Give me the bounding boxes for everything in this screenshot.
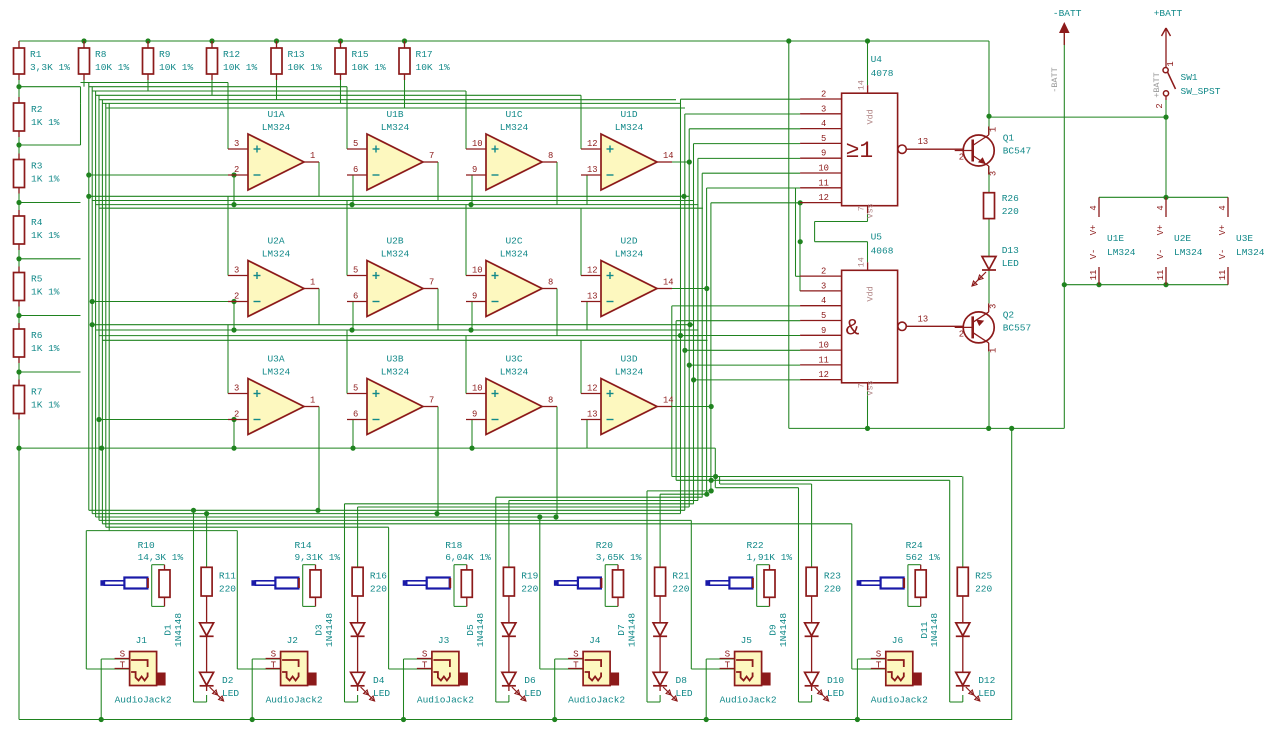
svg-text:R7: R7	[31, 387, 42, 398]
svg-text:Vdd: Vdd	[866, 286, 876, 301]
svg-text:5: 5	[821, 134, 826, 144]
svg-text:S: S	[573, 649, 579, 660]
connector J4 AudioJack2	[568, 635, 625, 706]
svg-text:Vss: Vss	[866, 380, 876, 395]
svg-text:AudioJack2: AudioJack2	[115, 695, 172, 706]
svg-text:R21: R21	[672, 570, 689, 581]
resistor R26 (220)	[984, 193, 1020, 219]
svg-text:9: 9	[472, 165, 477, 175]
svg-text:R25: R25	[975, 570, 992, 581]
svg-text:LM324: LM324	[500, 367, 529, 378]
svg-text:5: 5	[821, 311, 826, 321]
resistor R17 (10K 1%)	[399, 48, 450, 74]
svg-text:8: 8	[548, 151, 553, 161]
svg-text:Vdd: Vdd	[866, 109, 876, 124]
svg-text:R11: R11	[219, 570, 236, 581]
svg-text:J1: J1	[136, 635, 148, 646]
svg-text:Q1: Q1	[1003, 133, 1015, 144]
resistor R13 (10K 1%)	[271, 48, 322, 74]
svg-text:10K 1%: 10K 1%	[416, 62, 451, 73]
svg-text:D6: D6	[524, 675, 536, 686]
svg-text:T: T	[573, 660, 579, 671]
svg-text:U1D: U1D	[620, 109, 637, 120]
svg-text:U2A: U2A	[267, 236, 284, 247]
svg-text:5: 5	[353, 384, 358, 394]
svg-text:5: 5	[353, 266, 358, 276]
svg-text:J6: J6	[892, 635, 904, 646]
svg-text:R23: R23	[824, 570, 841, 581]
connector J2 AudioJack2	[266, 635, 323, 706]
svg-text:R10: R10	[138, 540, 155, 551]
svg-text:3: 3	[989, 171, 999, 176]
svg-text:9: 9	[472, 292, 477, 302]
wire opamp outputs	[319, 162, 711, 517]
op-amp U3D LM324	[581, 354, 674, 435]
wire bus row1-row2	[89, 196, 703, 275]
svg-text:R15: R15	[352, 49, 369, 60]
wire U5 inputs	[672, 188, 800, 380]
svg-text:1N4148: 1N4148	[324, 613, 335, 648]
svg-text:13: 13	[918, 314, 929, 324]
svg-text:V-: V-	[1156, 249, 1166, 260]
svg-text:2: 2	[959, 153, 964, 163]
jack plug symbol	[554, 578, 602, 589]
svg-text:8: 8	[548, 278, 553, 288]
svg-text:S: S	[725, 649, 731, 660]
wire top V+ rail	[19, 41, 989, 135]
resistor R6 (1K 1%)	[14, 329, 60, 357]
svg-text:U2D: U2D	[620, 236, 637, 247]
svg-text:U3D: U3D	[620, 354, 637, 365]
svg-text:R8: R8	[95, 49, 107, 60]
svg-text:2: 2	[234, 410, 239, 420]
svg-text:562 1%: 562 1%	[906, 552, 941, 563]
svg-text:13: 13	[918, 137, 929, 147]
connector J3 AudioJack2	[417, 635, 474, 706]
svg-text:AudioJack2: AudioJack2	[720, 695, 777, 706]
resistor R23 (220)	[806, 567, 841, 596]
svg-text:R2: R2	[31, 104, 43, 115]
resistor R9 (10K 1%)	[143, 48, 194, 74]
svg-text:R17: R17	[416, 49, 433, 60]
svg-text:6: 6	[353, 292, 358, 302]
diode D5 1N4148	[465, 613, 516, 648]
svg-text:10K 1%: 10K 1%	[223, 62, 258, 73]
svg-text:R19: R19	[521, 570, 538, 581]
svg-text:220: 220	[1002, 206, 1019, 217]
svg-text:10: 10	[818, 164, 829, 174]
resistor R22 (1,91K 1%)	[747, 540, 793, 597]
svg-text:D12: D12	[978, 675, 995, 686]
svg-text:12: 12	[818, 193, 829, 203]
svg-text:V+: V+	[1089, 225, 1099, 236]
LED D10	[805, 672, 845, 701]
svg-text:V-: V-	[1218, 249, 1228, 260]
power -BATT	[1050, 8, 1082, 93]
svg-text:AudioJack2: AudioJack2	[568, 695, 625, 706]
svg-text:220: 220	[219, 583, 236, 594]
connector J6 AudioJack2	[871, 635, 928, 706]
wire minus input taps	[19, 175, 715, 448]
op-amp U3B LM324	[347, 354, 438, 435]
svg-text:S: S	[271, 649, 277, 660]
op-amp U3C LM324	[466, 354, 557, 435]
jack plug symbol	[403, 578, 451, 589]
svg-text:1: 1	[310, 278, 315, 288]
svg-text:9: 9	[821, 326, 826, 336]
svg-text:U2C: U2C	[505, 236, 522, 247]
diode chain pins	[207, 596, 963, 691]
svg-text:LM324: LM324	[262, 367, 291, 378]
svg-text:1,91K 1%: 1,91K 1%	[747, 552, 793, 563]
op-amp U2A LM324	[228, 236, 319, 317]
LED D12	[956, 672, 996, 701]
svg-text:J5: J5	[741, 635, 753, 646]
svg-text:T: T	[876, 660, 882, 671]
svg-text:SW_SPST: SW_SPST	[1181, 86, 1221, 97]
svg-text:S: S	[422, 649, 428, 660]
svg-text:BC557: BC557	[1003, 322, 1032, 333]
svg-text:2: 2	[821, 90, 826, 100]
svg-text:U3B: U3B	[386, 354, 403, 365]
svg-text:LM324: LM324	[262, 122, 291, 133]
svg-text:-BATT: -BATT	[1050, 67, 1060, 93]
svg-text:1K 1%: 1K 1%	[31, 117, 60, 128]
svg-text:12: 12	[818, 370, 829, 380]
svg-text:12: 12	[587, 266, 598, 276]
svg-text:12: 12	[587, 384, 598, 394]
op-amp U1B LM324	[347, 109, 438, 190]
transistor Q2 BC557	[955, 303, 1032, 353]
svg-text:U4: U4	[871, 54, 883, 65]
svg-text:J4: J4	[589, 635, 601, 646]
svg-text:D8: D8	[676, 675, 688, 686]
svg-text:6,04K 1%: 6,04K 1%	[445, 552, 491, 563]
svg-text:10K 1%: 10K 1%	[352, 62, 387, 73]
svg-text:LM324: LM324	[615, 367, 644, 378]
wire U4 inputs	[681, 99, 801, 203]
svg-text:3: 3	[234, 266, 239, 276]
svg-text:220: 220	[370, 583, 387, 594]
resistor R12 (10K 1%)	[207, 48, 258, 74]
svg-text:D13: D13	[1002, 245, 1019, 256]
svg-text:4078: 4078	[871, 68, 894, 79]
svg-text:-BATT: -BATT	[1053, 8, 1082, 19]
diode D7 1N4148	[616, 613, 667, 648]
svg-text:R6: R6	[31, 330, 43, 341]
diode D11 1N4148	[919, 613, 970, 648]
svg-text:1N4148: 1N4148	[929, 613, 940, 648]
gate U4 4078	[800, 54, 964, 218]
svg-text:1K 1%: 1K 1%	[31, 287, 60, 298]
svg-text:T: T	[120, 660, 126, 671]
svg-text:2: 2	[959, 329, 964, 339]
svg-text:14: 14	[663, 151, 674, 161]
resistor R15 (10K 1%)	[335, 48, 386, 74]
svg-text:LM324: LM324	[500, 122, 529, 133]
op-amp power unit U2E LM324	[1156, 197, 1203, 284]
svg-text:R3: R3	[31, 161, 43, 172]
svg-text:T: T	[271, 660, 277, 671]
svg-text:10: 10	[818, 341, 829, 351]
svg-text:LED: LED	[524, 688, 541, 699]
svg-text:4: 4	[821, 296, 826, 306]
switch SW1 SW_SPST	[1155, 45, 1221, 109]
resistor R1 (3,3K 1%)	[14, 48, 71, 74]
resistor R21 (220)	[655, 567, 690, 596]
op-amp U2D LM324	[581, 236, 674, 317]
svg-text:T: T	[422, 660, 428, 671]
svg-text:3: 3	[989, 304, 999, 309]
svg-text:LM324: LM324	[1107, 247, 1136, 258]
svg-text:14: 14	[663, 396, 674, 406]
svg-text:220: 220	[521, 583, 538, 594]
resistor R24 (562 1%)	[906, 540, 941, 597]
svg-text:2: 2	[821, 267, 826, 277]
svg-text:LED: LED	[1002, 258, 1019, 269]
svg-text:1: 1	[989, 127, 999, 132]
svg-text:U1C: U1C	[505, 109, 522, 120]
diode D1 1N4148	[163, 613, 214, 648]
jack plug symbol	[705, 578, 753, 589]
svg-text:7: 7	[429, 151, 434, 161]
svg-text:U5: U5	[871, 231, 883, 242]
wire right power	[789, 33, 1228, 720]
jack plug symbol	[251, 578, 299, 589]
svg-text:2: 2	[234, 165, 239, 175]
op-amp power unit U3E LM324	[1218, 197, 1265, 284]
svg-text:9,31K 1%: 9,31K 1%	[295, 552, 341, 563]
op-amp power unit U1E LM324	[1089, 197, 1136, 284]
jack plug symbol	[857, 578, 905, 589]
svg-text:R26: R26	[1002, 193, 1019, 204]
svg-text:12: 12	[587, 139, 598, 149]
jack plug symbol	[100, 578, 147, 589]
svg-text:1: 1	[310, 396, 315, 406]
svg-text:2: 2	[234, 292, 239, 302]
svg-text:4: 4	[821, 119, 826, 129]
resistor R8 (10K 1%)	[79, 48, 130, 74]
svg-text:R22: R22	[747, 540, 764, 551]
svg-text:LED: LED	[978, 688, 995, 699]
svg-text:R18: R18	[445, 540, 462, 551]
svg-text:1N4148: 1N4148	[626, 613, 637, 648]
svg-text:3,65K 1%: 3,65K 1%	[596, 552, 642, 563]
svg-text:U3C: U3C	[505, 354, 522, 365]
svg-text:U2B: U2B	[386, 236, 403, 247]
svg-text:3: 3	[234, 139, 239, 149]
svg-text:1K 1%: 1K 1%	[31, 174, 60, 185]
svg-text:14: 14	[857, 257, 867, 267]
gate U5 4068	[800, 231, 964, 395]
LED D6	[502, 672, 542, 701]
op-amp U2C LM324	[466, 236, 557, 317]
LED D8	[653, 672, 693, 701]
svg-text:13: 13	[587, 165, 598, 175]
svg-text:2: 2	[1155, 103, 1165, 108]
svg-text:S: S	[876, 649, 882, 660]
svg-text:Q2: Q2	[1003, 309, 1015, 320]
diode D3 1N4148	[314, 613, 365, 648]
resistor R16 (220)	[352, 567, 387, 596]
svg-text:LM324: LM324	[1236, 247, 1265, 258]
svg-text:LED: LED	[676, 688, 693, 699]
svg-text:R14: R14	[295, 540, 312, 551]
svg-text:10: 10	[472, 384, 483, 394]
svg-text:11: 11	[1156, 270, 1166, 281]
svg-text:+BATT: +BATT	[1154, 8, 1183, 19]
resistor R5 (1K 1%)	[14, 273, 60, 301]
op-amp U1A LM324	[228, 109, 319, 190]
svg-text:D4: D4	[373, 675, 385, 686]
svg-text:U2E: U2E	[1174, 233, 1191, 244]
svg-text:LM324: LM324	[262, 249, 291, 260]
svg-text:1: 1	[989, 348, 999, 353]
resistor R10 (14,3K 1%)	[138, 540, 184, 597]
svg-text:R16: R16	[370, 570, 387, 581]
diode D9 1N4148	[768, 613, 819, 648]
svg-text:LM324: LM324	[381, 367, 410, 378]
resistor R7 (1K 1%)	[14, 386, 60, 414]
svg-text:1: 1	[310, 151, 315, 161]
svg-text:R24: R24	[906, 540, 923, 551]
svg-text:D10: D10	[827, 675, 844, 686]
svg-text:11: 11	[818, 355, 829, 365]
LED D13	[972, 245, 1019, 286]
wire top bus staircase	[19, 74, 405, 372]
svg-text:4068: 4068	[871, 245, 894, 256]
svg-text:LM324: LM324	[381, 122, 410, 133]
op-amp U2B LM324	[347, 236, 438, 317]
svg-text:V+: V+	[1156, 225, 1166, 236]
resistor R14 (9,31K 1%)	[295, 540, 341, 597]
LED D2	[200, 672, 240, 701]
svg-text:9: 9	[472, 410, 477, 420]
svg-text:10: 10	[472, 266, 483, 276]
svg-text:1: 1	[1166, 61, 1176, 66]
svg-text:R13: R13	[288, 49, 305, 60]
svg-text:AudioJack2: AudioJack2	[871, 695, 928, 706]
wire left resistor ladder	[18, 41, 20, 720]
svg-text:11: 11	[1089, 270, 1099, 281]
power +BATT	[1152, 8, 1183, 98]
wire bottom bus	[86, 477, 962, 531]
svg-text:9: 9	[821, 149, 826, 159]
op-amp U1D LM324	[581, 109, 674, 190]
svg-text:R4: R4	[31, 217, 43, 228]
svg-text:R12: R12	[223, 49, 240, 60]
wire gate power	[789, 41, 868, 428]
svg-text:5: 5	[353, 139, 358, 149]
resistor R25 (220)	[957, 567, 992, 596]
svg-text:6: 6	[353, 410, 358, 420]
wire jack group wiring	[86, 477, 963, 721]
svg-text:J2: J2	[287, 635, 299, 646]
svg-text:Vss: Vss	[866, 203, 876, 218]
transistor Q1 BC547	[955, 127, 1032, 177]
svg-text:LED: LED	[222, 688, 239, 699]
svg-text:LM324: LM324	[500, 249, 529, 260]
svg-text:13: 13	[587, 292, 598, 302]
connector J1 AudioJack2	[115, 635, 172, 706]
svg-text:1K 1%: 1K 1%	[31, 230, 60, 241]
svg-text:220: 220	[824, 583, 841, 594]
svg-text:10K 1%: 10K 1%	[95, 62, 130, 73]
svg-text:U1B: U1B	[386, 109, 403, 120]
svg-text:R20: R20	[596, 540, 613, 551]
svg-text:4: 4	[1089, 205, 1099, 210]
resistor R3 (1K 1%)	[14, 160, 60, 188]
svg-text:V+: V+	[1218, 225, 1228, 236]
svg-text:1K 1%: 1K 1%	[31, 400, 60, 411]
svg-text:8: 8	[548, 396, 553, 406]
svg-text:220: 220	[975, 583, 992, 594]
svg-text:14,3K 1%: 14,3K 1%	[138, 552, 184, 563]
svg-text:V-: V-	[1089, 249, 1099, 260]
svg-text:11: 11	[818, 178, 829, 188]
svg-text:R1: R1	[30, 49, 42, 60]
svg-text:14: 14	[857, 80, 867, 90]
resistor R4 (1K 1%)	[14, 216, 60, 244]
svg-text:U3E: U3E	[1236, 233, 1253, 244]
svg-text:R5: R5	[31, 274, 43, 285]
svg-text:7: 7	[429, 278, 434, 288]
svg-text:1N4148: 1N4148	[778, 613, 789, 648]
svg-text:J3: J3	[438, 635, 450, 646]
LED D4	[351, 672, 391, 701]
svg-text:SW1: SW1	[1181, 72, 1198, 83]
svg-text:3,3K 1%: 3,3K 1%	[30, 62, 70, 73]
resistor R11 (220)	[201, 567, 236, 596]
svg-text:3: 3	[821, 104, 826, 114]
svg-text:10K 1%: 10K 1%	[288, 62, 323, 73]
svg-text:AudioJack2: AudioJack2	[417, 695, 474, 706]
svg-text:LED: LED	[827, 688, 844, 699]
resistor R2 (1K 1%)	[14, 103, 60, 131]
wire bus row2-row3	[92, 325, 707, 394]
wire center bundle	[672, 99, 720, 513]
resistor R19 (220)	[503, 567, 538, 596]
svg-text:S: S	[120, 649, 126, 660]
svg-text:LM324: LM324	[381, 249, 410, 260]
svg-text:LM324: LM324	[615, 122, 644, 133]
wire bottom rail	[19, 719, 1012, 721]
resistor R18 (6,04K 1%)	[445, 540, 491, 597]
svg-text:1N4148: 1N4148	[173, 613, 184, 648]
svg-text:14: 14	[663, 278, 674, 288]
svg-text:AudioJack2: AudioJack2	[266, 695, 323, 706]
svg-text:1N4148: 1N4148	[475, 613, 486, 648]
svg-text:10: 10	[472, 139, 483, 149]
svg-text:D2: D2	[222, 675, 234, 686]
svg-text:R9: R9	[159, 49, 171, 60]
connector J5 AudioJack2	[720, 635, 777, 706]
svg-text:1K 1%: 1K 1%	[31, 343, 60, 354]
svg-text:11: 11	[1218, 270, 1228, 281]
svg-text:U1E: U1E	[1107, 233, 1124, 244]
svg-text:6: 6	[353, 165, 358, 175]
op-amp U3A LM324	[228, 354, 319, 435]
svg-text:7: 7	[429, 396, 434, 406]
svg-text:LM324: LM324	[615, 249, 644, 260]
svg-text:3: 3	[821, 281, 826, 291]
svg-text:220: 220	[672, 583, 689, 594]
svg-text:≥1: ≥1	[846, 138, 874, 164]
svg-text:&: &	[846, 315, 860, 341]
svg-text:4: 4	[1218, 205, 1228, 210]
svg-text:U3A: U3A	[267, 354, 284, 365]
svg-text:LED: LED	[373, 688, 390, 699]
